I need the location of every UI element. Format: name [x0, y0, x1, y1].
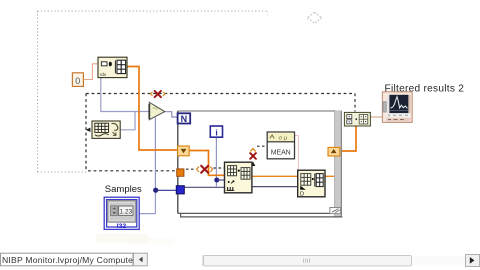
- wire triangle output to N: [165, 112, 177, 117]
- svg-text:1.23: 1.23: [119, 209, 132, 216]
- svg-text:Idx: Idx: [100, 72, 107, 77]
- function index bundle: [298, 170, 325, 197]
- wire orange right tunnel to bundle: [340, 126, 356, 151]
- wire broken dashed main: [86, 94, 355, 171]
- X broken 1: [150, 91, 165, 97]
- constant 0: [72, 73, 83, 87]
- wire blue vertical samples branch: [154, 118, 156, 191]
- wire orange index out: [325, 175, 335, 177]
- wire orange topleft long: [127, 67, 178, 151]
- terminal N: [178, 113, 191, 124]
- wire filter out slate: [252, 186, 300, 188]
- loop resize handle: [330, 208, 341, 214]
- statusbar scrollbar thumb: [203, 255, 466, 266]
- function bundle cluster array: [344, 112, 370, 126]
- wire broken dashed stubs near loop: [186, 146, 267, 169]
- svg-text:NIBP Monitor.lvproj/My Compute: NIBP Monitor.lvproj/My Computer: [2, 255, 136, 265]
- wire violet array main: [101, 78, 149, 112]
- X broken 2: [197, 166, 213, 173]
- function mean: [267, 132, 294, 159]
- tunnel orange solid: [177, 169, 184, 176]
- node diamond glyph: [307, 12, 322, 23]
- control samples numeric: [104, 197, 139, 230]
- svg-text:0: 0: [75, 76, 80, 86]
- svg-text:i: i: [215, 127, 217, 137]
- svg-text:N: N: [181, 114, 188, 124]
- wire dot i junction: [214, 178, 219, 183]
- function filter ptbypt: [225, 162, 252, 193]
- svg-text:Samples: Samples: [105, 184, 142, 195]
- wire blue tunnel to filter icon: [185, 186, 225, 188]
- function array to matrix: [92, 121, 120, 138]
- svg-text:I32: I32: [117, 223, 127, 230]
- svg-text:σ μ: σ μ: [279, 135, 288, 141]
- wire samples to blue tunnel: [157, 189, 177, 191]
- svg-text:MEAN: MEAN: [271, 150, 291, 157]
- wire tan bundle to indicator: [370, 116, 382, 118]
- wire i terminal down: [215, 138, 217, 187]
- function triangle: [149, 102, 165, 119]
- node frame (gray dotted rectangle): [38, 11, 268, 172]
- wire samples L: [139, 190, 155, 213]
- wire dot slate: [298, 185, 302, 189]
- wire pink mean out: [295, 136, 299, 171]
- tunnel blue solid: [176, 186, 184, 194]
- loop frame: [178, 110, 343, 217]
- wire stub arrow into converter: [86, 128, 91, 132]
- statusbar left scroll button: [134, 253, 148, 266]
- tunnel orange right: [328, 147, 340, 156]
- wire violet from converter icon: [120, 112, 135, 130]
- wire i to filter icon: [217, 179, 224, 181]
- statusbar tab box: [1, 253, 137, 266]
- X broken 3: [250, 149, 256, 166]
- terminal i: [210, 126, 222, 137]
- indicator waveform graph: [382, 92, 412, 123]
- artifact smudge: [96, 234, 148, 243]
- svg-text:D: D: [300, 192, 304, 198]
- wire orange filter to index icon: [252, 175, 298, 177]
- function initialize array: [98, 57, 127, 77]
- wire orange tunnel down to X: [189, 151, 224, 176]
- tunnel orange indexing left: [178, 146, 190, 156]
- wire salmon from 0 constant: [83, 64, 98, 80]
- wire dot samples junction: [153, 188, 158, 193]
- statusbar right scroll button: [466, 255, 480, 267]
